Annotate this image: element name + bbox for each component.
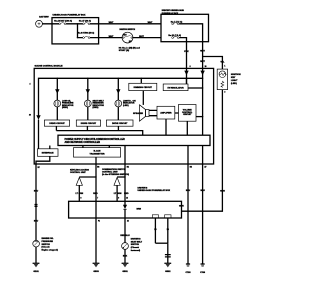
svg-text:BATTERY: BATTERY bbox=[39, 15, 49, 18]
svg-text:SEAT BELT: SEAT BELT bbox=[131, 240, 143, 243]
svg-text:(RED): (RED) bbox=[93, 107, 99, 109]
connector joint bbox=[165, 255, 171, 264]
node WHT at bus bbox=[202, 78, 203, 79]
fuse No.8 bbox=[83, 36, 90, 38]
terminal end C705 bbox=[186, 264, 190, 267]
diode arrow indicator3 bbox=[116, 89, 120, 94]
wire fuse21 to box bottom bbox=[179, 38, 186, 42]
volume control circuit box bbox=[179, 105, 197, 122]
svg-text:CIRCUIT: CIRCUIT bbox=[183, 114, 192, 116]
wire battery to under-hood box bbox=[42, 23, 59, 25]
svg-text:PNK: PNK bbox=[184, 51, 189, 53]
wire lower box pin24 to diode bbox=[124, 201, 126, 205]
node PNK at bus bbox=[186, 78, 187, 79]
svg-text:DRIVER'S: DRIVER'S bbox=[131, 239, 141, 241]
wire through lower box pin7 bbox=[95, 201, 97, 218]
fuse No.7 bbox=[172, 23, 179, 25]
fuse No.42 bbox=[59, 23, 66, 25]
svg-text:RED: RED bbox=[124, 193, 129, 195]
svg-text:BLU: BLU bbox=[34, 191, 39, 193]
svg-text:LIGHT: LIGHT bbox=[231, 80, 238, 82]
diode arrow left branch bbox=[36, 115, 40, 120]
rail wire to power supply circuit bbox=[56, 131, 142, 136]
svg-text:B1: B1 bbox=[127, 166, 129, 168]
svg-text:B6: B6 bbox=[97, 166, 99, 168]
svg-text:AND NETWORK CONTROLLER: AND NETWORK CONTROLLER bbox=[65, 141, 101, 144]
connector C416 bbox=[35, 205, 38, 207]
svg-text:(LED): (LED) bbox=[231, 83, 237, 85]
svg-text:UNDER-DASH FUSE/RELAY BOX: UNDER-DASH FUSE/RELAY BOX bbox=[138, 189, 171, 192]
wire drive circuit 3 to rail bbox=[117, 126, 119, 130]
svg-text:IGNITION: IGNITION bbox=[231, 74, 241, 76]
fuse No.47 bbox=[83, 23, 90, 25]
connector tab pin 16 on lower box edge bbox=[165, 215, 171, 218]
wire fuse42 to fuse47 bbox=[66, 23, 83, 25]
svg-text:DRIVER'S UNDER-DASH: DRIVER'S UNDER-DASH bbox=[162, 9, 185, 12]
wire drive circuit 2 to rail bbox=[86, 126, 88, 130]
dimming circuit box bbox=[129, 83, 157, 90]
svg-text:LT GRN: LT GRN bbox=[76, 193, 84, 195]
ignition switch SW1 bbox=[122, 32, 133, 43]
wire branch down to fuse No.8 row bbox=[78, 24, 83, 38]
wire to lights-on indicator bbox=[117, 78, 119, 100]
svg-text:1: 1 bbox=[224, 66, 225, 68]
seat belt reminder indicator lamp bbox=[84, 100, 91, 107]
svg-text:ENGINE OIL: ENGINE OIL bbox=[42, 238, 55, 240]
node at fuse8 row bbox=[77, 37, 78, 38]
svg-text:9: 9 bbox=[118, 198, 119, 200]
svg-text:P1: P1 bbox=[98, 221, 100, 223]
svg-text:BLU: BLU bbox=[200, 190, 205, 192]
wire interface down elbow bbox=[36, 156, 50, 164]
drive circuit box 2 bbox=[76, 120, 100, 126]
wire bus to dimming circuit bbox=[140, 78, 142, 83]
wire seat belt switch to ground bbox=[124, 249, 126, 263]
amplifier box bbox=[157, 106, 175, 119]
svg-text:B-CAN: B-CAN bbox=[94, 150, 101, 153]
svg-text:BLK: BLK bbox=[123, 255, 128, 257]
wire indicator2 to drive circuit bbox=[87, 107, 89, 120]
wire merged down bbox=[167, 243, 169, 254]
connector tab pin 18 on lower box edge bbox=[152, 215, 158, 218]
svg-text:CONTROL UNIT: CONTROL UNIT bbox=[70, 172, 86, 174]
power bus wire inside module bbox=[39, 78, 203, 115]
svg-text:C705: C705 bbox=[186, 272, 192, 274]
svg-text:DRIVE CIRCUIT: DRIVE CIRCUIT bbox=[112, 123, 128, 125]
wire power supply to b-can transmitter bbox=[83, 146, 109, 148]
wire BLU pin B4 down bbox=[187, 164, 189, 264]
wire module to lower box at B1 bbox=[124, 164, 126, 201]
wire indicator1 to drive circuit bbox=[56, 107, 58, 120]
driver's under-dash fuse/relay box lower bbox=[69, 201, 182, 218]
svg-text:WHT: WHT bbox=[148, 22, 153, 24]
wire keyless arrow to lower box bbox=[78, 185, 80, 201]
wire volume control to power supply bbox=[186, 121, 188, 135]
battery B1 bbox=[36, 20, 43, 27]
wire left branch to interface bbox=[38, 120, 40, 149]
wire oil switch to ground bbox=[35, 247, 37, 263]
low oil pressure indicator lamp bbox=[54, 100, 61, 107]
svg-text:BRN: BRN bbox=[137, 209, 142, 211]
svg-text:(LED): (LED) bbox=[123, 105, 129, 107]
svg-text:G501: G501 bbox=[122, 271, 128, 273]
svg-text:DRIVE CIRCUIT: DRIVE CIRCUIT bbox=[81, 123, 97, 125]
wire WHT to regulator bbox=[188, 87, 203, 89]
wire merge node bbox=[155, 242, 167, 244]
svg-text:G503: G503 bbox=[93, 271, 99, 273]
wire to low oil pressure indicator bbox=[56, 78, 58, 100]
wire lower box pin 16 down bbox=[167, 218, 169, 243]
wire ignition switch IG1 to under-dash box, WHT bbox=[133, 37, 161, 39]
diode arrow indicator2 bbox=[86, 89, 90, 94]
svg-text:GRN: GRN bbox=[220, 190, 225, 192]
svg-text:G502: G502 bbox=[165, 271, 171, 273]
wire fuse8 to ignition switch, WHT bbox=[90, 37, 122, 39]
svg-text:fastened): fastened) bbox=[131, 249, 141, 252]
diode inside lower box bbox=[123, 205, 127, 209]
svg-text:5V REGULATOR: 5V REGULATOR bbox=[168, 86, 185, 89]
wire dimming circuit to speaker bbox=[142, 91, 144, 105]
wire power supply down pin B4 bbox=[187, 146, 189, 165]
svg-text:AMPLIFIER: AMPLIFIER bbox=[160, 112, 172, 115]
driver's seat belt switch SW2 bbox=[122, 243, 129, 250]
regulator box U2 bbox=[163, 84, 188, 91]
svg-text:BLU: BLU bbox=[34, 221, 39, 223]
svg-text:B7: B7 bbox=[38, 167, 40, 169]
ground G502 bbox=[164, 263, 171, 267]
wire power supply down pin A7 bbox=[202, 146, 204, 165]
svg-text:SPEAKER: SPEAKER bbox=[133, 112, 144, 115]
svg-text:2: 2 bbox=[224, 91, 225, 93]
node indicator2 bbox=[87, 78, 88, 79]
svg-text:WHT: WHT bbox=[109, 22, 114, 24]
lights-on indicator lamp bbox=[115, 100, 122, 107]
wire P1 below box bbox=[95, 218, 97, 263]
svg-text:(Closed:: (Closed: bbox=[131, 247, 140, 249]
svg-text:LT GRN: LT GRN bbox=[114, 193, 122, 195]
drive circuit box 1 bbox=[44, 120, 69, 126]
under-hood fuse/relay box bbox=[52, 18, 99, 44]
wire GRN from key light down to lower box bbox=[182, 90, 223, 212]
node between fuses bbox=[77, 23, 78, 24]
wire fuse7 to box bottom bbox=[179, 24, 203, 42]
svg-text:SWITCH: SWITCH bbox=[131, 244, 140, 246]
wire diode to box bottom bbox=[124, 209, 126, 218]
wire combination arrow to lower box bbox=[116, 185, 118, 201]
svg-text:PRESSURE: PRESSURE bbox=[42, 241, 54, 243]
wire BLU pin A7 down bbox=[202, 164, 204, 264]
wire b-can to module bottom bbox=[95, 157, 97, 164]
svg-text:BLU: BLU bbox=[186, 190, 191, 192]
wire module to lower box at B6 bbox=[95, 164, 97, 201]
interface box bbox=[38, 149, 59, 157]
wire amplifier to volume control bbox=[175, 112, 179, 114]
driver's under-dash fuse/relay box bbox=[161, 14, 209, 41]
node tee combination bbox=[124, 176, 125, 177]
b-can transmitter box bbox=[74, 148, 121, 158]
svg-text:RED-BLU: RED-BLU bbox=[120, 235, 130, 237]
node WHT to volume circuit bbox=[202, 116, 203, 117]
svg-text:G101: G101 bbox=[33, 271, 39, 273]
wire lower box pin 18 down bbox=[154, 218, 156, 243]
svg-text:16: 16 bbox=[205, 66, 207, 68]
svg-text:SWITCH: SWITCH bbox=[42, 244, 51, 246]
gauge control module box bbox=[34, 68, 213, 164]
svg-text:UNDER-HOOD FUSE/RELAY BOX: UNDER-HOOD FUSE/RELAY BOX bbox=[53, 14, 87, 17]
svg-text:Engine stopped): Engine stopped) bbox=[42, 248, 59, 251]
svg-text:IGNITION SWITCH: IGNITION SWITCH bbox=[120, 29, 136, 31]
wire WHT from under-dash box down bbox=[202, 42, 204, 136]
terminal end C706 bbox=[201, 264, 205, 267]
engine oil pressure switch SW3 bbox=[33, 240, 40, 247]
svg-text:No.47 (40 A): No.47 (40 A) bbox=[79, 20, 91, 23]
diode arrow on WHT wire bbox=[200, 71, 204, 76]
wire fuse47 to under-dash box, WHT bbox=[90, 23, 161, 25]
wire power supply down pin B1 bbox=[124, 146, 126, 165]
ground G501 bbox=[122, 263, 129, 267]
svg-text:DRIVE CIRCUIT: DRIVE CIRCUIT bbox=[49, 123, 65, 125]
wire branch to keyless arrow bbox=[79, 176, 96, 178]
svg-text:No.42 BAT (100 A): No.42 BAT (100 A) bbox=[54, 20, 72, 23]
wire to seat belt reminder indicator bbox=[87, 78, 89, 100]
wire power supply to interface bbox=[49, 146, 51, 149]
svg-text:WHT: WHT bbox=[139, 36, 144, 38]
svg-text:8: 8 bbox=[190, 66, 191, 68]
svg-text:RED: RED bbox=[93, 193, 98, 195]
svg-text:IG1: IG1 bbox=[129, 41, 132, 43]
svg-text:START (B): START (B) bbox=[119, 49, 130, 52]
node WHT to regulator bbox=[202, 87, 203, 88]
wire PNK to regulator bbox=[186, 78, 188, 84]
svg-text:No.8 ST/IG1 (50 A): No.8 ST/IG1 (50 A) bbox=[78, 32, 95, 35]
svg-text:(Closed:: (Closed: bbox=[42, 247, 51, 249]
wire branch to combination arrow bbox=[117, 176, 125, 178]
drive circuit box 3 bbox=[106, 120, 133, 126]
speaker SP1 bbox=[140, 105, 150, 121]
node tee keyless bbox=[95, 176, 96, 177]
svg-text:WHT: WHT bbox=[109, 36, 114, 38]
svg-text:(RED): (RED) bbox=[62, 107, 68, 109]
wire speaker to amplifier bbox=[149, 110, 157, 115]
diode arrow indicator1 bbox=[55, 89, 59, 94]
ground G503 bbox=[93, 263, 100, 267]
ground G101 bbox=[33, 263, 40, 267]
wire branch to ignition key light bbox=[203, 57, 223, 70]
wire indicator3 to drive circuit bbox=[117, 107, 119, 120]
node indicator3 bbox=[118, 78, 119, 79]
node dimming circuit bbox=[141, 78, 142, 79]
svg-text:DIMMING CIRCUIT: DIMMING CIRCUIT bbox=[134, 87, 153, 89]
node key light branch bbox=[202, 56, 203, 57]
wire PNK from under-dash box to module bbox=[186, 42, 188, 84]
power supply circuit box bbox=[58, 135, 210, 145]
arrow to keyless access control unit bbox=[76, 177, 82, 185]
wire drive circuit 1 to rail bbox=[55, 126, 57, 130]
ignition key light L1 bbox=[217, 69, 227, 90]
svg-text:TRANSMITTER: TRANSMITTER bbox=[90, 152, 105, 155]
wire amplifier to power supply bbox=[165, 119, 167, 135]
svg-text:C706: C706 bbox=[200, 272, 206, 274]
svg-text:KEY: KEY bbox=[231, 77, 236, 79]
svg-text:30: 30 bbox=[29, 115, 31, 117]
wire WHT to volume circuit bbox=[196, 116, 203, 118]
fuse No.21 bbox=[172, 36, 179, 38]
svg-text:WHT: WHT bbox=[200, 61, 205, 63]
node indicator1 bbox=[57, 78, 58, 79]
arrow to combination switch control unit bbox=[114, 177, 120, 185]
wire oil pressure switch from module bbox=[35, 164, 37, 240]
svg-text:GAUGE CONTROL MODULE: GAUGE CONTROL MODULE bbox=[35, 64, 64, 67]
diode arrow on PNK wire bbox=[184, 71, 188, 76]
svg-text:WHT: WHT bbox=[200, 50, 205, 52]
svg-text:YEL: YEL bbox=[220, 61, 225, 63]
wire seat belt switch bbox=[124, 218, 126, 243]
svg-text:INTERFACE: INTERFACE bbox=[42, 152, 54, 155]
